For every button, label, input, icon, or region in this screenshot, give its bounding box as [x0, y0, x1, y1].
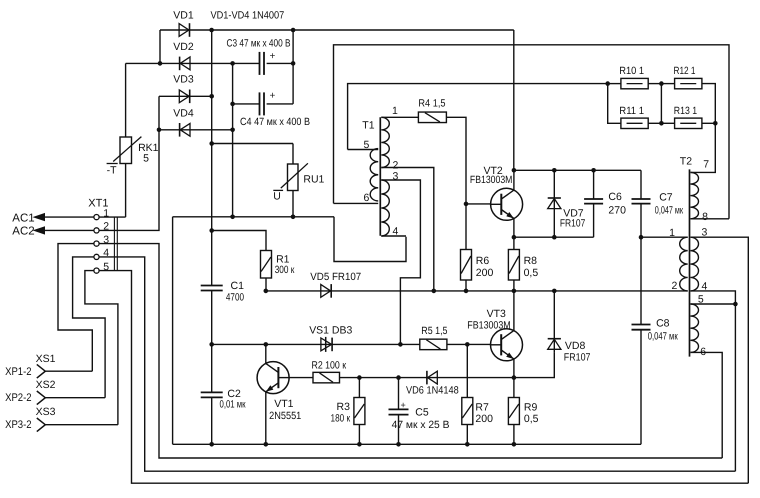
wire T1 pin5 lead: [348, 149, 379, 151]
svg-text:2N5551: 2N5551: [269, 410, 301, 422]
svg-text:C5: C5: [415, 407, 429, 419]
wire x293 vertical: [292, 30, 294, 104]
svg-text:XP1-2: XP1-2: [5, 366, 32, 378]
wire AC2: [45, 229, 94, 231]
svg-text:C6: C6: [608, 191, 622, 203]
wire T2 pin5 lead: [691, 303, 736, 305]
node dot T1p2/midrow: [432, 289, 437, 294]
wire T1 pin1 lead: [381, 116, 418, 118]
winding T2 1-2: [680, 237, 688, 291]
svg-text:C7: C7: [659, 192, 673, 204]
node dot VT2 base node: [464, 202, 469, 207]
wire R3 top lead: [358, 378, 360, 398]
wire VD3 left riser: [158, 96, 160, 130]
svg-text:R3: R3: [337, 401, 351, 413]
node dot C5 top: [396, 375, 401, 380]
wire RK1 top riser: [125, 63, 127, 137]
thermistor RK1: [107, 137, 142, 164]
wire T1 pin2 lead: [381, 168, 434, 291]
diode VD3: [179, 90, 189, 104]
wire R11 right lead: [648, 122, 661, 124]
svg-text:R5 1,5: R5 1,5: [421, 325, 447, 337]
wire C6 top lead: [593, 170, 595, 199]
wire emitter node y237.2: [514, 236, 594, 238]
transistor VT1: [257, 362, 289, 394]
wire VT2 base lead: [466, 203, 491, 205]
diode VD8: [548, 339, 561, 350]
svg-text:FB13003M: FB13003M: [470, 174, 513, 186]
transformer T1 core: [379, 117, 381, 236]
svg-text:FR107: FR107: [564, 352, 591, 364]
svg-text:R2 100 к: R2 100 к: [312, 359, 347, 371]
svg-text:T1: T1: [362, 120, 374, 132]
wire VD7 lead: [553, 170, 555, 237]
diode VD1: [179, 23, 189, 37]
varistor RU1: [273, 163, 308, 190]
resistor R2: [313, 372, 340, 383]
svg-text:VD4: VD4: [173, 107, 194, 119]
svg-text:R7: R7: [475, 401, 489, 413]
svg-text:6: 6: [364, 192, 370, 204]
wire T2 pin3 lead: [691, 237, 749, 483]
wire VT3 collector riser: [513, 291, 515, 331]
svg-text:+: +: [270, 91, 276, 102]
svg-text:R9: R9: [524, 401, 538, 413]
wire C7 bottom lead: [640, 204, 642, 238]
wire AC1: [45, 216, 94, 218]
node dot bus/C5: [396, 442, 401, 447]
svg-text:5: 5: [143, 153, 149, 165]
node dot VD4 left: [157, 128, 162, 133]
transistor VT2: [491, 188, 523, 220]
wire R6 bottom lead: [465, 280, 467, 291]
wire R2-VD6 row: [340, 377, 510, 379]
diode VD2: [180, 57, 190, 71]
node dot rail/lineA: [209, 28, 214, 33]
pin XT1-3 circle: [94, 241, 99, 246]
wire ground bus y444.3: [173, 443, 641, 445]
resistor R1: [261, 251, 272, 279]
node dot VD7 top: [552, 168, 557, 173]
wire XS1: [45, 370, 92, 372]
node dot C3 right: [291, 61, 296, 66]
wire VT1 emitter lead: [265, 392, 267, 445]
diac VS1: [321, 337, 332, 352]
capacitor C2: [201, 392, 223, 397]
svg-text:FB13003M: FB13003M: [467, 319, 510, 331]
wire XT1 pin4 right lead: [99, 257, 735, 471]
node dot bus/lineA: [209, 442, 214, 447]
wire XT1 pin2 lead: [99, 130, 159, 231]
transistor VT3: [491, 329, 523, 361]
svg-text:XP2-2: XP2-2: [5, 392, 32, 404]
svg-text:VD1-VD4 1N4007: VD1-VD4 1N4007: [211, 9, 285, 21]
svg-text:+: +: [270, 51, 276, 62]
wire C7 top lead: [640, 170, 642, 199]
arrow AC2: [33, 226, 46, 234]
wire R3 bottom lead: [358, 425, 360, 445]
node dot lineB top: [230, 61, 235, 66]
wire rail y44.8 (T1p6-T2p8): [334, 45, 730, 219]
node dot T2 pin1 node: [639, 235, 644, 240]
wire -bus right drop to T1 pin4: [334, 217, 406, 262]
node dot C6 top: [591, 168, 596, 173]
wire C3 right lead: [267, 62, 294, 64]
diode VD7: [548, 198, 561, 209]
svg-text:2: 2: [672, 280, 678, 292]
svg-text:200: 200: [476, 267, 494, 279]
wire lineA lower: [211, 397, 213, 444]
node dot mid bottom: [659, 121, 664, 126]
svg-text:VD1: VD1: [173, 9, 194, 21]
capacitor C7: [632, 199, 651, 204]
svg-text:R8: R8: [524, 255, 538, 267]
connector XT1 strip line1: [113, 217, 115, 271]
wire collector node y170.3: [514, 169, 641, 171]
svg-text:AC1: AC1: [12, 212, 34, 224]
wire T1 pin6 lead: [334, 202, 379, 204]
resistor R11: [621, 118, 648, 128]
wire T2 pin8 lead: [691, 218, 730, 220]
node dot lineA/R1 top: [209, 228, 214, 233]
svg-text:VD3: VD3: [173, 74, 194, 86]
svg-text:T2: T2: [680, 155, 692, 167]
node dot R3 top: [357, 375, 362, 380]
connector XS3: [37, 418, 46, 432]
wire VT2 emitter riser: [513, 219, 515, 250]
wire C4 left lead: [233, 103, 260, 105]
resistor R10: [621, 78, 648, 88]
wire R10 right lead: [648, 83, 661, 85]
node dot VT3 emitter node: [512, 375, 517, 380]
node dot R5/R7 node: [465, 342, 470, 347]
diode VD6: [427, 371, 437, 385]
pin XT1-4 circle: [94, 254, 99, 259]
resistor R4: [418, 112, 446, 123]
node dot VD7 bottom: [552, 235, 557, 240]
wire -bus y216.8: [173, 216, 334, 218]
wire RU1 feed y143.5: [212, 143, 293, 145]
capacitor C3: [260, 52, 265, 75]
wire RU1 top riser: [292, 144, 294, 165]
svg-text:0,5: 0,5: [524, 267, 539, 279]
svg-text:XS3: XS3: [36, 406, 56, 418]
capacitor C8: [632, 325, 651, 330]
svg-text:1: 1: [392, 105, 398, 117]
wire T2 pin4 lead: [691, 291, 736, 471]
wire VT1 base to R2: [289, 377, 313, 379]
node dot rail/x293: [291, 28, 296, 33]
winding T2 5-6: [691, 304, 699, 352]
wire lineA upper: [211, 30, 213, 286]
wire C6 bottom lead: [593, 204, 595, 238]
wire rail y83.6 (T1p5-R10): [348, 84, 608, 150]
node dot R1/midrow: [264, 289, 269, 294]
svg-text:270: 270: [608, 204, 626, 216]
winding T2 3-4: [691, 237, 699, 291]
wire XT1 pin3 left route: [58, 244, 94, 372]
svg-text:4700: 4700: [226, 292, 244, 304]
node dot T2 pin4/5: [733, 302, 738, 307]
wire R5 right lead: [447, 343, 491, 345]
wire XT1 pin3 right lead: [99, 244, 722, 458]
svg-text:C1: C1: [231, 280, 245, 292]
connector XS2: [37, 391, 46, 405]
node dot T1p3/R5: [398, 342, 403, 347]
wire R7 bottom lead: [466, 425, 468, 445]
svg-text:R4 1,5: R4 1,5: [418, 98, 445, 110]
wire VD4 row y129.8: [159, 129, 233, 131]
wire T1 pin3 lead: [381, 180, 420, 344]
svg-text:R12 1: R12 1: [674, 65, 696, 77]
diode VD4: [180, 123, 190, 137]
wire R6 top lead: [465, 204, 467, 250]
wire VT1 collector riser: [265, 344, 267, 363]
svg-text:180 к: 180 к: [331, 412, 351, 424]
svg-text:U: U: [273, 191, 281, 203]
winding T1 1-2: [381, 117, 389, 167]
node dot VT1 collector: [264, 342, 269, 347]
svg-text:XP3-2: XP3-2: [5, 419, 32, 431]
wire R13 right lead: [702, 122, 715, 124]
diode VD5: [321, 284, 331, 298]
wire T2 pin6 lead: [691, 352, 723, 458]
wire +rail top y30: [160, 29, 514, 31]
svg-text:0,047 мк: 0,047 мк: [655, 204, 683, 216]
svg-text:300 к: 300 к: [275, 264, 295, 276]
wire R13 left lead: [661, 122, 674, 124]
svg-text:R11 1: R11 1: [619, 105, 644, 117]
wire R1 bottom lead: [265, 278, 267, 291]
wire R8 bottom lead: [513, 280, 515, 291]
node dot R13 right: [713, 121, 718, 126]
node dot VD2 row/VD1 riser: [158, 61, 163, 66]
svg-text:0,047 мк: 0,047 мк: [648, 331, 678, 343]
wire lineA mid: [211, 291, 213, 393]
winding T2 7-8: [691, 172, 699, 218]
node dot R10 left: [605, 81, 610, 86]
node dot VD8/midrow: [552, 289, 557, 294]
capacitor C5: [389, 409, 409, 414]
wire RU1 bottom riser: [292, 191, 294, 217]
arrow AC1: [33, 213, 46, 221]
svg-text:VD5 FR107: VD5 FR107: [310, 271, 361, 283]
svg-text:0,01 мк: 0,01 мк: [220, 398, 246, 410]
wire R12 left lead: [661, 83, 674, 85]
wire -bus left drop x172.6: [172, 217, 174, 444]
node dot bus/VT1e: [264, 442, 269, 447]
node dot VT3 collector: [512, 289, 517, 294]
svg-text:47 мк х 25 В: 47 мк х 25 В: [392, 419, 450, 431]
node dot lineA/VS1 row: [209, 342, 214, 347]
svg-text:3: 3: [393, 171, 399, 183]
node dot RU1/-bus: [291, 215, 296, 220]
svg-text:FR107: FR107: [560, 218, 586, 230]
wire VT2 collector riser: [513, 170, 515, 190]
resistor R3: [354, 398, 365, 425]
wire XS2: [45, 397, 105, 399]
wire C4 right lead: [267, 103, 294, 105]
wire C8 bottom riser: [640, 330, 642, 445]
wire R7 riser: [466, 344, 468, 397]
wire VT3 emitter riser: [513, 359, 515, 398]
svg-text:XS1: XS1: [36, 353, 56, 365]
resistor R6: [461, 250, 472, 281]
svg-text:XS2: XS2: [36, 379, 56, 391]
node dot VT2 emitter node: [512, 235, 517, 240]
node dot mid top: [659, 81, 664, 86]
resistor R5: [420, 339, 447, 350]
connector XT1 strip line2: [116, 217, 118, 271]
node dot R6/midrow: [464, 289, 469, 294]
wire R12/R13 right link to T2p7: [691, 84, 716, 173]
svg-text:R13 1: R13 1: [674, 105, 697, 117]
svg-text:VT3: VT3: [487, 308, 506, 320]
wire T2 pin1 lead: [641, 236, 688, 238]
wire R10 left lead: [608, 83, 621, 85]
svg-text:C4 47 мк х 400 В: C4 47 мк х 400 В: [240, 116, 310, 128]
wire midpoint row: [266, 290, 688, 292]
svg-text:C3 47 мк х 400 В: C3 47 мк х 400 В: [227, 37, 291, 49]
wire XT1 pin5 right lead: [99, 271, 748, 484]
wire XT1 pin5 left route: [85, 271, 118, 425]
svg-text:0,5: 0,5: [524, 413, 539, 425]
transformer T2 core: [689, 169, 691, 356]
pin XT1-5 circle: [94, 268, 99, 273]
capacitor C1: [201, 286, 223, 291]
connector XS1: [37, 364, 46, 378]
svg-text:VS1 DB3: VS1 DB3: [309, 325, 352, 337]
wire XT1 pin4 left route: [73, 257, 106, 398]
wire RK1 bottom riser: [125, 164, 127, 218]
node dot lineB/-bus: [230, 215, 235, 220]
node dot VD4/lineB: [230, 128, 235, 133]
resistor R7: [462, 398, 473, 425]
resistor R8: [508, 250, 519, 281]
wire C5 bottom lead: [398, 415, 400, 445]
wire C5 top lead: [398, 378, 400, 410]
capacitor C6: [584, 199, 603, 204]
wire VS1 row: [212, 343, 420, 345]
node dot VT2 collector node: [512, 168, 517, 173]
svg-text:R6: R6: [476, 255, 490, 267]
wire VD3 row y96.3: [159, 95, 212, 97]
wire mid link: [660, 84, 662, 124]
svg-text:7: 7: [703, 159, 709, 171]
wire VD8 lead: [553, 291, 555, 353]
wire VT3 emitter-VD8 link: [509, 352, 554, 377]
wire XS3: [45, 424, 118, 426]
wire XT1 pin1 to RK1: [99, 216, 126, 218]
svg-text:8: 8: [702, 211, 708, 223]
svg-text:VD6 1N4148: VD6 1N4148: [406, 385, 459, 397]
wire R9 bottom lead: [513, 425, 515, 445]
node dot bus/R3: [357, 442, 362, 447]
node dot bus/R7: [465, 442, 470, 447]
wire VD2/C3 row y63.4: [126, 62, 260, 64]
winding T1 3-4: [381, 180, 389, 236]
node dot bus/R9: [512, 442, 517, 447]
wire +rail drop x513.8: [513, 30, 515, 170]
node dot C4/lineB: [230, 102, 235, 107]
capacitor C4: [260, 92, 265, 115]
svg-text:AC2: AC2: [12, 226, 34, 238]
winding T1 5-6: [370, 149, 378, 201]
wire R10/R11 left link: [608, 84, 621, 124]
wire T1 pin4 lead: [381, 235, 406, 237]
wire R1 top lead: [212, 231, 266, 251]
wire C8 top lead: [640, 237, 642, 324]
svg-text:RU1: RU1: [303, 173, 324, 185]
wire VD1 left riser: [159, 30, 161, 63]
resistor R12: [675, 78, 702, 88]
svg-text:VD2: VD2: [173, 41, 194, 53]
resistor R13: [675, 118, 702, 128]
resistor R9: [508, 398, 519, 425]
svg-text:-Т: -Т: [107, 165, 117, 177]
node dot VD3/lineA: [209, 94, 214, 99]
svg-text:VD8: VD8: [565, 340, 586, 352]
wire lineB: [232, 63, 234, 216]
svg-text:C8: C8: [656, 317, 670, 329]
node dot lineA/RU1 feed: [209, 141, 214, 146]
svg-text:VT1: VT1: [274, 398, 293, 410]
svg-text:+: +: [401, 400, 406, 410]
svg-text:200: 200: [475, 413, 493, 425]
pin XT1-1 circle: [94, 215, 99, 220]
pin XT1-2 circle: [94, 228, 99, 233]
svg-text:R10 1: R10 1: [619, 65, 644, 77]
wire R4 to VT2 base: [446, 117, 466, 204]
